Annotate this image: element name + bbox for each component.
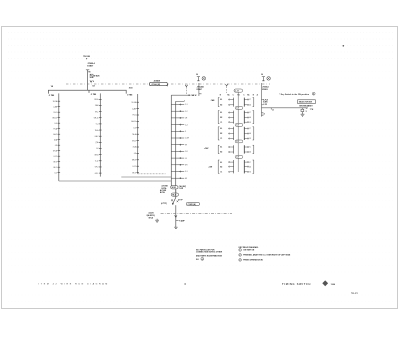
svg-text:J-1: J-1 bbox=[185, 158, 187, 160]
connector pin arrow below boundary bbox=[175, 213, 177, 227]
wire: dashed link from ladder C bottom bbox=[138, 173, 166, 175]
wire: bank right rail bbox=[262, 83, 264, 117]
svg-text:B2: B2 bbox=[220, 133, 222, 135]
svg-text:B2: B2 bbox=[220, 152, 222, 154]
svg-text:C1: C1 bbox=[220, 138, 222, 140]
svg-text:+SW: +SW bbox=[208, 166, 212, 168]
terminal: chassis stub bbox=[174, 227, 177, 228]
node P label with tick bbox=[176, 219, 186, 222]
ground: selector ground bbox=[301, 112, 305, 117]
svg-text:7H-1: 7H-1 bbox=[95, 111, 99, 113]
svg-text:GH-B: GH-B bbox=[53, 150, 57, 152]
battery symbol 24V (left) bbox=[196, 73, 206, 81]
svg-text:GH-B: GH-B bbox=[132, 160, 136, 162]
svg-text:7H-1: 7H-1 bbox=[53, 112, 57, 114]
relay coil labels between groups (stadiums) bbox=[235, 107, 243, 159]
caption: sheet title TIMING SWITCH bbox=[282, 280, 336, 286]
svg-text:O-4: O-4 bbox=[96, 124, 99, 126]
connector pin arrow on feeder bbox=[90, 80, 92, 82]
svg-text:GH-2: GH-2 bbox=[132, 140, 136, 142]
svg-text:C-17: C-17 bbox=[236, 108, 239, 110]
junction dot bbox=[188, 94, 190, 96]
svg-text:P-AMP: P-AMP bbox=[179, 219, 185, 222]
svg-text:GH-10: GH-10 bbox=[52, 117, 57, 119]
svg-text:J706A41: J706A41 bbox=[197, 85, 204, 88]
relay bank column headers bbox=[220, 93, 259, 96]
svg-text:C-4: C-4 bbox=[185, 124, 188, 126]
wire: link line C to cable D bbox=[121, 176, 171, 178]
svg-text:PRESSED, AWAY THE O 2, OVER RI: PRESSED, AWAY THE O 2, OVER RIGHT OF LEF… bbox=[243, 254, 291, 257]
svg-text:O-12: O-12 bbox=[132, 166, 136, 168]
label: C-MIX LATCH (stadium) bbox=[186, 202, 199, 206]
svg-text:GH-10: GH-10 bbox=[94, 117, 99, 119]
notes block (left) bbox=[196, 248, 223, 260]
junction tick on feed bbox=[271, 108, 274, 112]
svg-text:C-17: C-17 bbox=[236, 125, 239, 127]
svg-text:C-17: C-17 bbox=[235, 91, 239, 93]
svg-text:J-8: J-8 bbox=[134, 153, 136, 155]
svg-text:7H-1: 7H-1 bbox=[132, 115, 136, 117]
wire: cable D second head bbox=[176, 100, 185, 101]
svg-text:AND PARTS IN DISTRIBUTION: AND PARTS IN DISTRIBUTION bbox=[196, 255, 223, 258]
contact: open terminal bbox=[306, 106, 309, 109]
wire: feeder from TB-10 to bus bbox=[86, 70, 89, 90]
svg-text:XC8: XC8 bbox=[129, 87, 133, 89]
svg-text:SHLD: SHLD bbox=[149, 217, 154, 219]
svg-text:O-12: O-12 bbox=[95, 161, 99, 163]
svg-text:NL-21: NL-21 bbox=[351, 292, 358, 295]
svg-text:* Key Switch in the ON posi: * Key Switch in the ON position bbox=[279, 93, 309, 96]
junction arrow on boundary line bbox=[225, 84, 227, 93]
wire: ladder A bottom corner bbox=[59, 180, 172, 182]
junction arrow on boundary line (cable D tap) bbox=[185, 85, 187, 87]
svg-text:ON SWIT ON: ON SWIT ON bbox=[243, 250, 255, 252]
tick below boundary at stadium exit bbox=[167, 84, 169, 86]
svg-text:C-1: C-1 bbox=[185, 104, 188, 106]
cable W bundle (ladder D) bbox=[171, 95, 190, 193]
svg-text:GF: GF bbox=[185, 178, 187, 180]
svg-text:ITEM 42 WIRE RUN DIAGRAM: ITEM 42 WIRE RUN DIAGRAM bbox=[39, 283, 109, 286]
wire: dashed drop from boundary to cable D bbox=[185, 87, 187, 95]
fuse F1 bbox=[90, 74, 93, 78]
connector J706A4 label bbox=[262, 85, 268, 91]
svg-text:GF-1: GF-1 bbox=[95, 173, 99, 175]
legend: key relay diagram bbox=[239, 246, 291, 261]
svg-text:B2: B2 bbox=[220, 166, 222, 168]
svg-text:SELECTOR SW: SELECTOR SW bbox=[299, 102, 312, 104]
node labels on right rail bbox=[262, 99, 268, 116]
svg-text:GH-2: GH-2 bbox=[95, 136, 99, 138]
wire: main distribution bus bbox=[48, 90, 126, 93]
svg-text:C8: C8 bbox=[92, 86, 94, 88]
svg-text:(4 TYP): (4 TYP) bbox=[161, 202, 167, 205]
svg-text:GF-1: GF-1 bbox=[53, 167, 57, 169]
svg-text:GF-3: GF-3 bbox=[132, 172, 136, 174]
label block: shield note bbox=[147, 211, 156, 219]
svg-text:V8: V8 bbox=[51, 86, 53, 88]
svg-text:C-17: C-17 bbox=[236, 141, 239, 143]
svg-text:O-1: O-1 bbox=[185, 171, 188, 173]
svg-text:J706B-4: J706B-4 bbox=[87, 62, 95, 65]
svg-text:O-4: O-4 bbox=[54, 123, 57, 125]
svg-text:PRESS OPERATION IN: PRESS OPERATION IN bbox=[243, 259, 263, 262]
switch S1 (timing switch contacts) bbox=[171, 189, 178, 213]
connector P8-A pin column bbox=[52, 93, 60, 181]
svg-text:O TB8: O TB8 bbox=[91, 94, 96, 96]
svg-text:O-12: O-12 bbox=[53, 156, 57, 158]
svg-text:E1B07: E1B07 bbox=[87, 66, 93, 68]
svg-text:E1B07: E1B07 bbox=[197, 89, 203, 91]
svg-text:GF-3: GF-3 bbox=[53, 161, 57, 163]
svg-text:C1: C1 bbox=[220, 122, 222, 124]
connector label J706A (stadium) bbox=[149, 82, 167, 86]
label block: cable termination bbox=[162, 185, 187, 191]
connector P8-B pin column bbox=[94, 93, 102, 176]
wire: selector feed bbox=[262, 107, 306, 109]
svg-text:B-PNL: B-PNL bbox=[160, 192, 165, 194]
svg-text:GH-10: GH-10 bbox=[131, 121, 136, 123]
svg-text:O-4: O-4 bbox=[133, 128, 136, 130]
svg-text:J3: J3 bbox=[272, 109, 274, 111]
svg-text:C-8: C-8 bbox=[185, 151, 188, 153]
battery symbol 24V (right) bbox=[261, 73, 270, 81]
svg-text:GH-B: GH-B bbox=[94, 154, 98, 156]
resistor R1 bbox=[301, 108, 308, 113]
svg-text:1: 1 bbox=[240, 250, 241, 252]
connector P8-C pin column bbox=[131, 94, 139, 174]
svg-text:O-2: O-2 bbox=[54, 172, 57, 174]
connector J706A41 label bbox=[197, 85, 204, 91]
svg-text:W BUS: W BUS bbox=[94, 76, 101, 78]
svg-text:J706A4: J706A4 bbox=[262, 85, 268, 88]
svg-text:B2: B2 bbox=[220, 105, 222, 107]
svg-text:3: 3 bbox=[240, 260, 241, 262]
label: selector switch (boxed) bbox=[298, 100, 316, 108]
node: stray mark bbox=[343, 45, 345, 47]
svg-text:J-8: J-8 bbox=[55, 145, 57, 147]
note: key switch position bbox=[279, 92, 315, 96]
wire: cable D head rail bbox=[171, 94, 188, 96]
ground: shield ground bbox=[155, 219, 159, 223]
wire: bank left rail bbox=[199, 83, 202, 96]
svg-text:2: 2 bbox=[240, 255, 241, 257]
svg-text:CONNECTION NOTES, OTHER: CONNECTION NOTES, OTHER bbox=[196, 252, 223, 254]
wire: cable boundary dash-dot line bbox=[66, 83, 270, 85]
label block: second termination bbox=[160, 189, 179, 197]
svg-text:O TB8: O TB8 bbox=[49, 95, 54, 97]
svg-text:C-MIX (A): C-MIX (A) bbox=[188, 203, 196, 206]
connector J706B-4 label bbox=[87, 62, 95, 68]
svg-text:GH-2: GH-2 bbox=[53, 134, 57, 136]
svg-text:C-17: C-17 bbox=[236, 157, 239, 159]
node TB-10B terminal label bbox=[83, 56, 90, 61]
svg-text:C-2: C-2 bbox=[185, 111, 188, 113]
wire: relay bank centre spine bbox=[237, 92, 239, 172]
relay C-1706B label (stadium) bbox=[234, 89, 243, 93]
svg-text:E1B03: E1B03 bbox=[262, 89, 268, 91]
svg-text:CAB W: CAB W bbox=[191, 94, 197, 97]
svg-text:TIMING SWITCH: TIMING SWITCH bbox=[282, 282, 311, 286]
svg-text:GF-3: GF-3 bbox=[95, 167, 99, 169]
svg-text:A-MAIN: A-MAIN bbox=[154, 80, 161, 83]
svg-text:J706A (M): J706A (M) bbox=[151, 83, 160, 86]
svg-text:B2: B2 bbox=[220, 117, 222, 119]
relay bank contact rows bbox=[218, 98, 254, 174]
svg-text:C1: C1 bbox=[220, 172, 222, 174]
svg-text:J-8: J-8 bbox=[96, 148, 98, 150]
svg-text:O TB8: O TB8 bbox=[127, 94, 132, 96]
wire: lower shield boundary dash-dot bbox=[161, 212, 232, 214]
